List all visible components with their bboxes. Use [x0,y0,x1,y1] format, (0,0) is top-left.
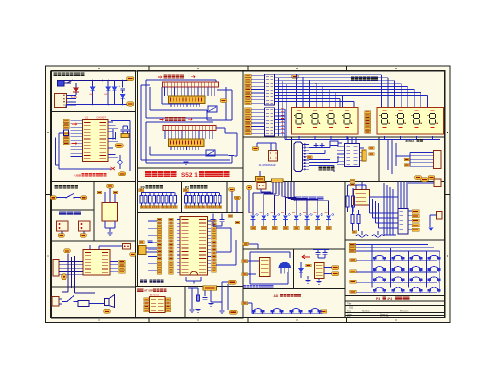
port + wire [245,108,252,111]
net label [201,206,205,209]
LCD1 pin comb [165,87,215,96]
port left [50,196,57,200]
svg-text:LED: LED [89,94,94,96]
pin label right [212,237,217,240]
panel net-small [227,182,243,213]
display DS2 [377,108,444,135]
key S1 [373,255,385,260]
J8 port labels [408,210,412,212]
svg-text:S52: S52 [181,172,193,179]
sensor TO92 [279,262,292,268]
connector J8 [398,209,408,235]
comb verticals [273,182,294,201]
pin label right [212,234,217,237]
header yellow [203,286,217,291]
row wires + left minis [356,261,437,293]
oval left [247,185,253,190]
crystal Y2 [139,246,147,255]
svg-text:AT24C02: AT24C02 [150,294,160,297]
port + wire [245,95,252,98]
left column feed wires [148,221,157,271]
port + wire [245,128,252,131]
U4 pin name texture [182,220,207,273]
svg-text:AD: AD [274,294,279,298]
keys chain wire [248,302,253,304]
net label [157,206,161,209]
right wires to border [216,228,236,265]
panel isp [136,287,186,319]
sheet background [46,66,451,323]
connector J5 [53,260,59,277]
svg-text:5~9V: 5~9V [71,95,77,99]
bus junction dots [296,74,343,96]
LED net label [305,226,310,229]
DB9 pin circles [304,144,306,170]
resistor network RP [186,192,220,194]
left mini [242,302,248,305]
pin label pair [157,218,162,221]
pin label L [63,123,69,126]
right minis [110,262,118,272]
pin label pair [157,225,162,228]
label 5V power jack [59,212,81,216]
blue box component [78,300,89,306]
panel eeprom [52,241,136,287]
ad key at 315 [309,309,321,314]
svg-text:USB: USB [75,173,82,177]
svg-text:Title: Title [347,303,352,306]
mid pin labels between displays [365,111,371,114]
port above [107,184,114,188]
MCU U4 AT89S52 [180,217,208,276]
svg-text:Number: Number [362,310,370,313]
svg-text:CH340T: CH340T [96,116,106,120]
label serial comm [319,167,335,171]
wires IC top [89,245,91,250]
port + wire [245,85,252,88]
key S12 [428,277,440,282]
bottom ports [415,176,422,180]
panel P0-pullup [138,182,182,213]
ad key at 258 [252,309,264,314]
pin label L [63,142,69,145]
port + wire [245,122,252,125]
top verticals into U6 [347,137,349,144]
LCD2 pin header [163,126,216,131]
net label [174,206,178,209]
net label [193,206,197,209]
port [252,147,259,151]
LED D4 [114,81,116,88]
key S3 [410,255,422,260]
pin label pair [157,236,162,239]
ports sides [97,191,102,194]
inner border frame [51,71,445,318]
ovals left [64,249,71,253]
cap [203,298,208,300]
top verticals [398,182,407,209]
dip8 pin [144,309,149,312]
label blue [244,285,274,288]
net label [169,206,173,209]
pin label right [212,269,217,272]
net label [185,206,189,209]
wires up [270,143,272,151]
trimmer RV2 [206,150,215,156]
port + wire [245,125,252,128]
LCD1 number strip [169,96,206,104]
oval VCC right [115,144,123,148]
LED D3 [107,81,109,88]
key S11 [410,277,422,282]
diode left [300,262,302,269]
title block lines [345,305,445,307]
wire box right [225,87,227,120]
column verticals [372,244,440,292]
port + wire [245,88,252,91]
panel regulator [94,182,136,242]
key S9 [373,277,385,282]
comb below strip1 [171,104,200,108]
gnd [183,162,188,165]
svg-text:S52: S52 [349,306,354,309]
panel rs485 [379,137,445,182]
LED D2 [92,81,94,88]
pin label L [63,126,69,129]
tiny red refs [249,211,328,213]
port bottom [104,309,111,313]
comps top [330,141,338,146]
stepped fan wires [253,193,329,215]
net label [197,206,201,209]
svg-text:4*4: 4*4 [387,297,392,301]
ovals right [228,280,237,284]
row port mini [350,270,357,273]
port + wire [245,74,252,77]
pin label right [212,255,217,258]
LED net label [315,226,320,229]
mini top [306,264,312,267]
panel title-block [345,301,445,318]
bottom rail [66,104,128,106]
border ruler ticks [46,66,451,323]
svg-text:Drawn By:: Drawn By: [380,316,390,318]
panel 5V-jack [52,210,95,241]
long verticals into L7 [67,254,69,293]
U3 pin texture [85,253,108,273]
pin label pair [157,264,162,267]
panel led-row [243,182,345,250]
pin label pair [157,222,162,225]
net label [189,206,193,209]
mini right [119,267,126,270]
label hanzi LCD + arrows [164,75,184,79]
pin label right [212,262,217,265]
key S15 [410,287,422,292]
LED net label [294,226,299,229]
pin label right [212,241,217,244]
LCD1 pin header [163,82,219,87]
switch wire [57,197,67,199]
pin wire J1-3 [67,101,77,103]
header top right [123,244,131,250]
panel crystal-serial [243,137,292,182]
dip8 pin [144,302,149,305]
top wires [355,185,357,190]
caps [316,253,321,255]
port + wire [245,132,252,135]
port top right [421,178,429,182]
port + wire [245,98,252,101]
pin label pair [157,254,162,257]
pin label right [212,220,217,223]
LCD1 wires below [149,87,151,110]
bottom wires [104,221,106,228]
mini right [119,260,126,263]
oval bottom right [118,172,126,176]
resistor network RP [141,192,175,194]
capacitor C1 polar [122,81,124,88]
net label [210,206,214,209]
connector strip 1 [265,74,275,105]
yellow box lower [256,177,265,182]
panel isp-right [185,287,243,319]
key S14 [392,287,404,292]
key S10 [392,277,404,282]
top port minis [349,243,356,246]
port + wire [245,111,252,114]
panel keypad [345,240,445,296]
port left [183,189,188,192]
pin label right [212,266,217,269]
left loop wire [58,133,60,169]
U6 pin stubs + wires to DB9 [337,147,364,165]
mini right [119,270,126,273]
pin label pair [157,271,162,274]
IC U9 [315,263,325,279]
LED net label [272,226,277,229]
labels top right [228,215,233,218]
resistor vertical orange [362,150,366,161]
pin label pair [157,261,162,264]
IC U8 [260,258,271,277]
trimmer RV1 [208,106,217,112]
port + wire [245,102,252,105]
display DS1 [292,108,359,135]
pin label pair [157,257,162,260]
IC U7 DS18B20 [354,190,370,206]
port + wire [245,78,252,81]
crystal OSC [269,151,278,162]
connector J1 4pin [55,94,67,108]
gnd row [195,310,200,313]
svg-text:AT ISP: AT ISP [144,289,153,293]
port + wire [245,118,252,121]
485 vertical bus [387,140,389,170]
comb header yellow [272,179,284,182]
LED panel bottom oval [243,242,250,246]
wire top rail VCC [64,80,128,82]
LED net label [251,226,256,229]
net label [165,206,169,209]
pin label right [212,223,217,226]
resistor R [346,196,349,207]
resistors R2 R3 [351,215,354,224]
key S16 [428,287,440,292]
port [220,99,227,103]
key S4 [428,255,440,260]
red arrows left [72,123,77,145]
DB9 connector J6 [294,142,303,172]
panel ad-sensor [243,249,294,288]
svg-text:U1: U1 [85,116,89,120]
switch S1 [58,80,74,86]
diamond LED [117,160,122,165]
panel title-band [138,168,244,182]
LED net label [283,226,288,229]
panel P2-pullup [182,182,228,213]
svg-text:Revision: Revision [400,311,409,313]
pin label pair [157,247,162,250]
pin label pair [157,232,162,235]
LED net label [326,226,331,229]
pin label pair [157,250,162,253]
pin label L [63,139,69,142]
vertical bus drops between strips [278,78,280,136]
U4 left pin wires + labels [177,220,180,273]
comb below strip2 [171,147,199,151]
port + wire [245,81,252,84]
row port mini [350,280,357,283]
red X mark [111,167,116,170]
diode D1 red [73,88,79,93]
speaker/buzzer [105,295,115,308]
main title red [145,171,176,177]
crystal caps right [122,126,124,129]
LED blue [429,228,434,232]
label LED flow blue [294,197,324,201]
resistor Rb [351,196,354,207]
port + wire [245,115,252,118]
svg-text:LED: LED [104,94,109,96]
power port VCC top [127,77,135,81]
loop wires [249,252,251,284]
panel keypad-label [345,296,445,302]
jack J4 [79,221,91,231]
segment bus wires [275,75,428,108]
mini port [350,179,355,182]
digit select bottom rail [284,109,286,139]
ad key at 296 [290,309,302,314]
ad key at 277 [271,309,283,314]
svg-text:8050A: 8050A [406,139,416,143]
net label [153,206,157,209]
connector left [52,297,59,307]
LED net label [261,226,266,229]
pin label right [212,248,217,251]
label press power button [55,185,78,189]
485 mini ports [404,158,410,161]
key S2 [392,255,404,260]
ports [229,188,236,192]
key S13 [373,287,385,292]
port [307,156,312,159]
svg-text:File:: File: [347,316,352,318]
label buzzer/expand black [140,280,147,284]
pin label pair [157,229,162,232]
left minis [242,260,248,263]
pin label L [63,136,69,139]
net label [218,206,222,209]
pin label right [212,252,217,255]
bottom wires [185,277,187,281]
pin wire J1-1 [67,94,77,96]
LCD2 pin comb [165,131,213,140]
mini left [352,231,357,234]
reset caps top right [212,214,214,220]
row port mini [350,259,357,262]
dip8 pin [144,305,149,308]
U1 pin name texture [84,123,106,159]
mini right [119,263,126,266]
panel ad-ref [294,249,346,288]
net label [206,206,210,209]
IC U6 MAX232 [345,144,360,167]
conn small right [434,179,441,187]
panel relay [52,287,136,318]
right loop box [129,121,131,171]
net label [161,206,165,209]
pin label pair [157,243,162,246]
pin label L [63,132,69,135]
LEDs row [251,213,334,226]
panel power-button [52,182,95,211]
regulator U2 7805 [102,203,118,222]
pin label pair [157,268,162,271]
ports right ovals [332,266,340,270]
pin wire J1-2 [67,98,77,100]
red arrow [302,255,310,259]
serial extra wires [309,162,338,164]
wavy gnd row [356,235,384,238]
panel usb-download [52,112,136,182]
pin label pair [157,240,162,243]
net label [140,206,144,209]
row port mini [350,290,357,293]
oval mid [130,253,137,257]
IC U3 [83,250,110,276]
power port GND bottom [127,102,135,106]
connector right J7 [434,151,442,169]
port under J3 [58,234,65,238]
panel power-switch [52,71,136,112]
panel serial [292,137,380,182]
U1 left pin wires [71,121,83,157]
port left [139,189,144,192]
key S8 [428,267,440,272]
key S6 [392,267,404,272]
caps [314,146,319,148]
IC U1 CH340 [83,120,109,162]
wire box right2 [236,133,238,156]
port under J4 [80,234,87,238]
wires J5-U3 [59,262,83,275]
red pin number column [281,108,284,132]
svg-text:+: + [119,84,121,88]
right mini [321,310,327,313]
pin label L [63,119,69,122]
key S7 [410,267,422,272]
